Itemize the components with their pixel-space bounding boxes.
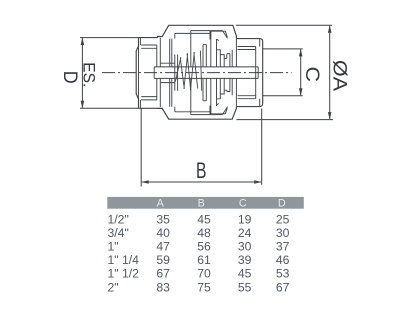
svg-text:1/2": 1/2" xyxy=(108,212,129,226)
dimension A extension lines xyxy=(236,25,333,119)
svg-text:B: B xyxy=(196,158,207,183)
svg-text:55: 55 xyxy=(238,280,252,294)
spring retainer washer xyxy=(175,55,178,91)
svg-text:75: 75 xyxy=(197,280,211,294)
dimension C line xyxy=(300,49,302,95)
svg-text:D: D xyxy=(59,71,80,84)
svg-text:2": 2" xyxy=(108,280,119,294)
svg-text:40: 40 xyxy=(156,226,170,240)
svg-text:ES.: ES. xyxy=(79,62,98,87)
svg-text:3/4": 3/4" xyxy=(108,226,129,240)
seat staircase top xyxy=(217,50,230,59)
svg-text:19: 19 xyxy=(238,212,252,226)
svg-text:47: 47 xyxy=(156,240,170,254)
cage vertical xyxy=(190,31,192,115)
seat staircase bottom xyxy=(217,90,230,99)
svg-text:C: C xyxy=(301,67,322,83)
svg-text:C: C xyxy=(239,198,247,210)
svg-text:25: 25 xyxy=(276,212,290,226)
dimension B line xyxy=(142,181,262,183)
spring xyxy=(175,51,201,91)
arrowheads A xyxy=(328,25,332,33)
svg-text:83: 83 xyxy=(156,280,170,294)
svg-text:39: 39 xyxy=(238,253,252,267)
cage bridge top xyxy=(210,31,227,39)
svg-text:59: 59 xyxy=(156,253,170,267)
svg-text:46: 46 xyxy=(276,253,290,267)
right nut-body joint line xyxy=(235,39,237,107)
svg-text:35: 35 xyxy=(156,212,170,226)
dimension D line xyxy=(81,38,83,108)
svg-text:30: 30 xyxy=(238,240,252,254)
right port cavity end line xyxy=(255,47,257,99)
stem xyxy=(154,67,258,79)
arrowheads C xyxy=(299,49,303,57)
poppet disc xyxy=(211,39,219,106)
left port thread lines xyxy=(141,45,157,100)
svg-text:1" 1/4: 1" 1/4 xyxy=(108,253,140,267)
svg-text:56: 56 xyxy=(197,240,211,254)
centerline xyxy=(102,72,292,74)
right nut facet line xyxy=(259,39,261,107)
svg-text:61: 61 xyxy=(197,253,211,267)
dimension B extension lines xyxy=(141,108,262,186)
right union nut xyxy=(236,39,262,107)
svg-text:48: 48 xyxy=(197,226,211,240)
svg-text:24: 24 xyxy=(238,226,252,240)
left nut face edge line xyxy=(139,38,141,109)
svg-text:A: A xyxy=(157,198,165,210)
dimension A line xyxy=(329,26,331,119)
left inner wall line xyxy=(159,38,161,107)
dimension D extension lines xyxy=(80,38,139,109)
svg-text:45: 45 xyxy=(238,267,252,281)
left nut hex corner bump xyxy=(138,46,140,99)
dimension C extension lines xyxy=(263,49,303,96)
svg-text:67: 67 xyxy=(156,267,170,281)
inner shoulder lines xyxy=(191,31,228,115)
table header band xyxy=(107,197,303,209)
left union nut xyxy=(136,38,157,109)
svg-text:67: 67 xyxy=(276,280,290,294)
left bore lines xyxy=(160,63,175,82)
svg-text:B: B xyxy=(198,198,205,210)
right port thread lines xyxy=(238,47,256,99)
svg-text:ØA: ØA xyxy=(329,60,350,91)
arrowheads D xyxy=(81,38,85,46)
poppet washer plate xyxy=(203,45,206,101)
left port cavity end line xyxy=(156,45,158,100)
seat ring walls xyxy=(220,50,232,95)
left body joint lines xyxy=(170,39,172,107)
svg-text:D: D xyxy=(278,198,286,210)
svg-text:30: 30 xyxy=(276,226,290,240)
inner cavity wall lines xyxy=(175,33,210,111)
svg-text:53: 53 xyxy=(276,267,290,281)
cage bridge bottom xyxy=(210,106,227,114)
svg-text:1" 1/2: 1" 1/2 xyxy=(108,267,140,281)
svg-text:1": 1" xyxy=(108,240,119,254)
svg-text:37: 37 xyxy=(276,240,290,254)
svg-text:45: 45 xyxy=(197,212,211,226)
arrowheads B xyxy=(141,180,149,184)
svg-text:70: 70 xyxy=(197,267,211,281)
valve body outline xyxy=(158,25,237,119)
